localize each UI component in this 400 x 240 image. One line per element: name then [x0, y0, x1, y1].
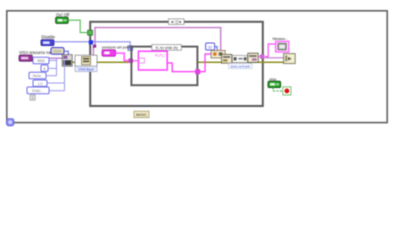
loop condition terminal — [283, 87, 291, 95]
formula output tunnel — [195, 69, 200, 74]
data bits constant — [41, 65, 48, 71]
match pattern node — [232, 55, 247, 62]
Measured pressure indicator — [276, 41, 289, 52]
On/ Off boolean terminal — [56, 17, 69, 23]
small numeric box — [30, 95, 35, 100]
error wire (left run) — [72, 61, 131, 63]
formula node — [138, 51, 167, 70]
Echo at Port# label — [229, 63, 252, 68]
outer diagram frame — [7, 11, 387, 123]
svg-text:BASIC: BASIC — [136, 113, 147, 117]
svg-text:Enter...: Enter... — [32, 89, 43, 93]
case structure frame — [131, 47, 197, 86]
VISA wire to close — [265, 57, 284, 59]
wire to indicator — [265, 44, 276, 57]
pressure set point terminal — [102, 50, 116, 56]
pressure wire — [116, 53, 129, 61]
free label BASIC — [134, 111, 149, 117]
number constant 32 — [206, 43, 215, 50]
error wire (right run) — [197, 61, 284, 63]
svg-text:9600: 9600 — [37, 59, 45, 63]
ring wire — [64, 51, 68, 55]
formula output wire — [167, 63, 197, 72]
svg-text:32: 32 — [208, 45, 212, 49]
parity constant — [29, 72, 46, 79]
Disable tunnel on case frame — [128, 46, 133, 51]
constant wire — [215, 47, 218, 51]
termination constant — [27, 87, 49, 94]
svg-text:Measur...: Measur... — [273, 37, 289, 41]
Disable terminal — [41, 40, 54, 46]
svg-text:None.: None. — [33, 74, 42, 78]
svg-text:◄░▒►: ◄░▒► — [170, 20, 182, 24]
VISA wire to config — [32, 57, 62, 59]
Disable tunnel on loop border — [89, 40, 93, 44]
VISA read icon — [248, 53, 258, 62]
VISA resource name terminal — [19, 55, 32, 61]
VISA close icon — [284, 54, 296, 64]
VISA configure serial port icon — [62, 55, 72, 67]
stop wire (dashed boolean) — [273, 88, 283, 91]
svg-text:R(,P(,): R(,P(,) — [155, 53, 165, 57]
svg-text:pressure set point: pressure set point — [102, 46, 131, 50]
Disable wire — [54, 42, 130, 46]
stop bits constant — [33, 80, 47, 86]
loop corner icon (bottom-left of outer frame) — [7, 119, 14, 126]
output tunnel on loop border — [260, 54, 264, 58]
flow control ring constant — [51, 48, 64, 55]
baud rate constant — [33, 57, 49, 64]
wire tunnel to formula — [133, 60, 138, 62]
wire bend marker — [93, 45, 96, 48]
svg-text:Disable: Disable — [41, 34, 55, 39]
svg-text:8: 8 — [43, 67, 45, 71]
read output wire — [258, 56, 260, 58]
case selector label — [152, 45, 182, 51]
svg-text:0: 0 — [32, 96, 34, 100]
svg-text:Echo at Port#: Echo at Port# — [231, 64, 250, 68]
format into string node — [211, 50, 225, 58]
while loop frame — [90, 22, 263, 106]
stop boolean terminal — [268, 81, 281, 87]
svg-text:1.0: 1.0 — [38, 82, 43, 86]
On/Off tunnel on loop border — [88, 30, 93, 35]
expanded node body — [75, 55, 97, 66]
VISA write icon — [222, 54, 232, 63]
svg-text:XL for while (N): XL for while (N) — [155, 46, 178, 50]
node label — [75, 66, 97, 71]
routed VISA wire (overhead) — [95, 28, 221, 54]
string wire to format node — [200, 54, 211, 72]
svg-text:VISA Baud: VISA Baud — [78, 67, 94, 71]
constant wires — [46, 58, 65, 91]
while loop selector label — [169, 19, 185, 25]
pressure tunnel on case frame — [128, 58, 133, 63]
On/Off wire — [68, 20, 88, 32]
